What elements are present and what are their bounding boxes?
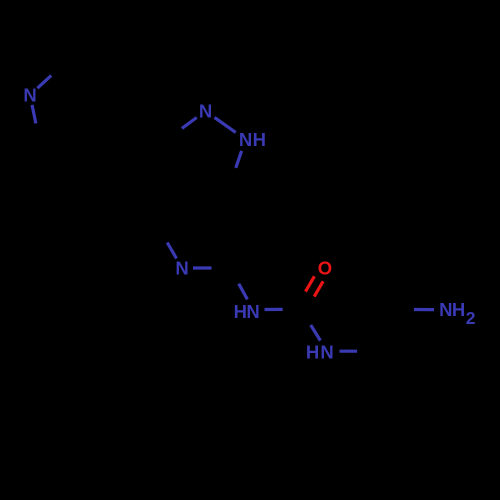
svg-text:N: N: [246, 301, 259, 322]
svg-text:H: H: [234, 301, 247, 322]
svg-text:H: H: [452, 299, 465, 320]
svg-text:2: 2: [466, 308, 476, 328]
svg-text:N: N: [175, 258, 188, 279]
svg-text:H: H: [253, 129, 266, 150]
svg-text:N: N: [439, 299, 452, 320]
svg-text:N: N: [23, 85, 36, 106]
svg-text:H: H: [306, 342, 319, 363]
svg-text:O: O: [318, 258, 332, 279]
svg-text:N: N: [239, 129, 252, 150]
svg-text:N: N: [199, 101, 212, 122]
svg-text:N: N: [320, 342, 333, 363]
